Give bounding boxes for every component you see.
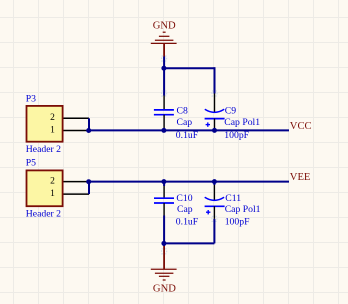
junction dot P5 / VEE rail (86, 179, 91, 184)
header P5 pin 2 lead (64, 181, 88, 183)
capacitor C9 curved plate (205, 109, 224, 112)
wire junction to C9 branch (horizontal) (164, 67, 215, 69)
svg-text:2: 2 (50, 113, 55, 123)
capacitor C9 straight plate (205, 118, 225, 120)
svg-text:Header 2: Header 2 (26, 208, 61, 219)
svg-text:1: 1 (50, 189, 55, 199)
capacitor C9 bottom pin (214, 119, 216, 131)
svg-text:0.1uF: 0.1uF (176, 216, 199, 227)
junction dot C10 / VEE rail (161, 179, 166, 184)
power port GND (bottom) symbol bars (151, 269, 177, 280)
capacitor C9 top pin (214, 94, 216, 113)
svg-text:100pF: 100pF (224, 130, 249, 141)
header P3 body (27, 106, 63, 142)
capacitor C8 plates (154, 110, 174, 115)
svg-text:GND: GND (153, 283, 176, 294)
wire P3 pin2 down to VCC rail (88, 118, 90, 130)
capacitor C11 curved plate (205, 197, 224, 200)
svg-text:0.1uF: 0.1uF (176, 130, 199, 141)
capacitor C11 plus sign (206, 210, 210, 214)
svg-text:1: 1 (50, 126, 55, 136)
svg-text:VEE: VEE (290, 172, 311, 183)
svg-text:Cap Pol1: Cap Pol1 (224, 117, 260, 128)
junction dot C10 / ground rail (161, 241, 166, 246)
connection hotspot marker at bottom GND stem (162, 249, 167, 254)
capacitor C11 bottom pin (213, 206, 215, 219)
junction dot P3 / VCC rail (86, 128, 91, 133)
svg-text:C11: C11 (225, 193, 241, 204)
capacitor C10 plates (154, 198, 174, 203)
connection hotspot marker at C11 bottom pin end (212, 216, 217, 221)
wire P5 pin1 up to VEE rail (88, 182, 90, 195)
junction dot GND net / C8 branch (161, 66, 166, 71)
wire C10 bottom pin to ground rail (163, 216, 165, 244)
wire VCC rail (87, 129, 289, 131)
svg-text:P5: P5 (26, 157, 36, 168)
svg-text:Cap: Cap (177, 204, 193, 215)
wire GND stem down to VCC rail (vertical through junction) (163, 57, 165, 96)
svg-text:Header 2: Header 2 (26, 144, 61, 155)
header P3 pin 2 lead (64, 117, 90, 119)
svg-text:C10: C10 (176, 193, 192, 204)
junction dot C9 / VCC rail (212, 128, 217, 133)
header P5 body (27, 170, 63, 206)
capacitor C11 top pin (213, 185, 215, 200)
svg-text:Cap: Cap (177, 117, 193, 128)
capacitor C8 bottom pin (163, 115, 165, 131)
capacitor C8 top pin (163, 96, 165, 110)
svg-text:Cap Pol1: Cap Pol1 (225, 204, 261, 215)
capacitor C9 plus sign (206, 122, 210, 126)
junction dot C8 / VCC rail (161, 128, 166, 133)
wire junction to bottom GND stem (163, 243, 165, 246)
connection hotspot marker at GND top stem end (162, 56, 167, 61)
wire down to C9 top pin (214, 67, 216, 93)
capacitor C10 bottom pin (163, 203, 165, 216)
connection hotspot marker at C8 top pin end (162, 91, 167, 96)
power port GND (top) symbol bars (151, 32, 177, 43)
wire VEE rail down to C10 top pin (163, 182, 165, 186)
svg-text:C8: C8 (177, 106, 188, 117)
junction dot C11 / VEE rail (212, 179, 217, 184)
wire VEE rail (87, 181, 289, 183)
wire VEE rail down to C11 top pin (213, 182, 215, 185)
header P3 pin 1 lead (64, 130, 88, 132)
svg-text:C9: C9 (225, 106, 236, 117)
wire bottom ground rail (164, 242, 214, 244)
svg-text:2: 2 (50, 177, 55, 187)
header P5 pin 1 lead (64, 193, 90, 195)
svg-text:P3: P3 (26, 93, 36, 104)
svg-text:100pF: 100pF (225, 216, 250, 227)
power port GND (bottom) stem (163, 246, 165, 269)
capacitor C10 top pin (163, 186, 165, 198)
connection hotspot marker at C9 top pin end (212, 91, 217, 96)
power port GND (top) stem (163, 43, 165, 56)
svg-text:VCC: VCC (290, 121, 312, 132)
svg-text:GND: GND (153, 21, 176, 32)
capacitor C11 straight plate (205, 205, 225, 207)
wire C11 bottom pin down to ground rail (213, 219, 215, 244)
